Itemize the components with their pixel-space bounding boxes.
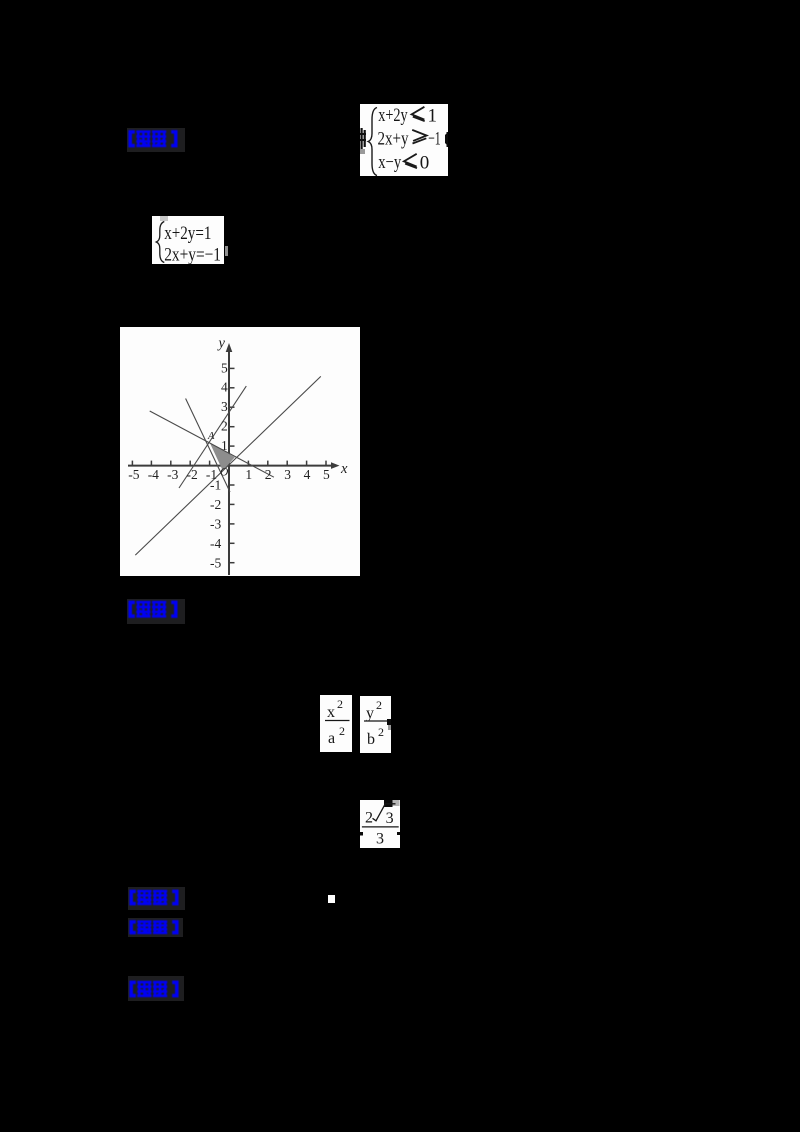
svg-text:2: 2 [378,725,384,739]
svg-text:A: A [207,431,215,442]
svg-text:1: 1 [428,106,438,127]
svg-text:x: x [327,704,335,721]
svg-text:b: b [367,731,375,748]
svg-text:2: 2 [337,697,343,711]
svg-text:-5: -5 [210,555,221,570]
svg-text:y: y [366,705,374,722]
svg-text:2: 2 [221,419,228,434]
svg-text:1: 1 [245,467,252,482]
svg-text:-3: -3 [167,467,178,482]
svg-text:3: 3 [221,399,228,414]
svg-text:O: O [220,467,229,479]
svg-text:−1: −1 [428,129,441,150]
svg-text:x−y: x−y [378,152,401,173]
svg-text:x: x [340,461,348,477]
svg-text:5: 5 [323,467,330,482]
svg-text:-2: -2 [210,497,221,512]
svg-text:x+2y: x+2y [378,105,408,126]
svg-text:-5: -5 [128,467,139,482]
svg-text:x+2y=1: x+2y=1 [164,223,211,244]
svg-text:4: 4 [221,380,228,395]
svg-text:y: y [217,336,226,352]
svg-text:a: a [328,730,335,747]
svg-text:3: 3 [284,467,291,482]
svg-text:2: 2 [265,467,272,482]
svg-text:2: 2 [339,724,345,738]
svg-text:2: 2 [365,810,373,827]
svg-text:2x+y: 2x+y [378,129,409,150]
svg-text:-1: -1 [210,478,221,493]
svg-text:-3: -3 [210,517,221,532]
svg-text:3: 3 [386,810,394,827]
svg-text:4: 4 [304,467,311,482]
svg-text:5: 5 [221,360,228,375]
svg-text:2: 2 [376,698,382,712]
svg-text:-4: -4 [148,467,159,482]
svg-text:-2: -2 [187,467,198,482]
svg-text:0: 0 [420,152,430,173]
svg-text:2x+y=−1: 2x+y=−1 [164,245,221,264]
svg-text:3: 3 [376,831,384,848]
svg-text:1: 1 [221,438,228,453]
svg-text:-4: -4 [210,536,221,551]
